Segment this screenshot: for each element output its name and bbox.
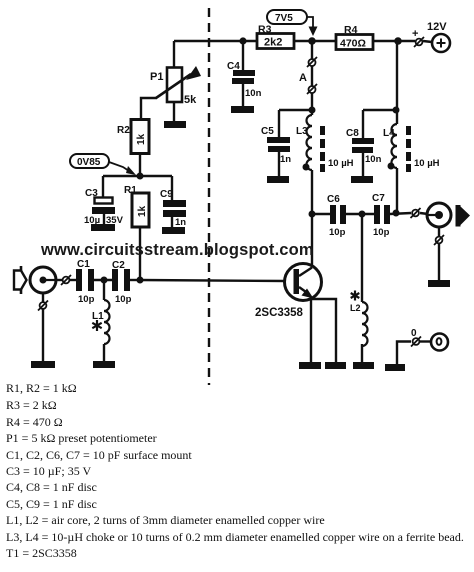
parts list text	[6, 381, 464, 560]
wire link to C1	[70, 279, 76, 281]
wire link to 12V	[423, 41, 432, 42]
wire BNC out shield drop	[438, 227, 440, 236]
wire R2 to node 0V85	[139, 153, 141, 177]
BNC input connector	[30, 267, 56, 293]
resistor R3	[257, 24, 294, 49]
wire L1 to ground	[103, 344, 105, 362]
svg-text:T1 = 2SC3358: T1 = 2SC3358	[6, 546, 77, 560]
wire C9 bottom to ground	[171, 216, 173, 228]
svg-text:10n: 10n	[365, 154, 382, 165]
wire C2 to base node	[130, 279, 140, 281]
wire L1 drop	[103, 280, 105, 300]
wire C6 node to C6	[312, 213, 330, 215]
wire base line	[139, 280, 286, 281]
wire C8 branch	[363, 109, 396, 111]
ground (emitter 2)	[325, 362, 346, 369]
wire BNC dot to link	[46, 279, 62, 281]
svg-text:12V: 12V	[427, 21, 447, 33]
capacitor C7	[372, 193, 390, 238]
node C1-C2 junction	[101, 277, 108, 284]
svg-text:C6: C6	[327, 194, 340, 205]
svg-text:10 µH: 10 µH	[414, 158, 440, 169]
svg-text:C1: C1	[77, 259, 90, 270]
svg-text:A: A	[299, 72, 307, 84]
potentiometer P1	[150, 66, 201, 106]
svg-text:L1, L2 = air core, 2 turns of: L1, L2 = air core, 2 turns of 3mm diamet…	[6, 513, 325, 527]
ground (C4)	[231, 106, 254, 113]
node C4 junction	[239, 37, 246, 44]
wire C7 to out node	[390, 213, 411, 214]
svg-text:5k: 5k	[184, 94, 197, 106]
terminal 0 jack	[431, 334, 448, 351]
capacitor C1	[76, 259, 95, 305]
wire C1 to C2	[94, 279, 112, 281]
wire L4 column top	[396, 41, 398, 124]
wire L3 bottom to collector node	[311, 170, 313, 214]
wire P1 wiper to R2	[141, 98, 157, 120]
node out junction	[393, 210, 400, 217]
resistor R1	[124, 185, 149, 227]
svg-text:10p: 10p	[78, 294, 95, 305]
ground (C9)	[162, 227, 185, 234]
svg-text:2SC3358: 2SC3358	[255, 307, 304, 319]
node L2 junction	[359, 211, 366, 218]
wire A link mid	[311, 66, 313, 86]
svg-text:C5: C5	[261, 126, 274, 137]
node base junction	[137, 277, 144, 284]
wire L4 bottom to C7 node	[396, 168, 398, 213]
capacitor C9	[160, 189, 186, 228]
svg-text:R1, R2 = 1 kΩ: R1, R2 = 1 kΩ	[6, 381, 77, 395]
inductor L2	[350, 291, 368, 347]
svg-text:C4, C8 = 1 nF disc: C4, C8 = 1 nF disc	[6, 480, 97, 494]
link (BNC in to C1)	[61, 275, 71, 285]
svg-text:1n: 1n	[280, 154, 291, 165]
wire A link to C5 node	[311, 93, 313, 115]
wire BNC in shield drop	[42, 294, 44, 302]
ground (L1)	[93, 361, 115, 368]
wire A link column	[311, 41, 313, 59]
capacitor C8	[346, 128, 382, 165]
svg-text:R2: R2	[117, 125, 130, 136]
wire C8 to ground	[362, 153, 364, 177]
inductor L1	[92, 300, 110, 344]
capacitor C6	[327, 194, 346, 238]
svg-text:0V85: 0V85	[77, 157, 101, 168]
node C5 branch	[309, 107, 316, 114]
svg-text:R1: R1	[124, 185, 137, 196]
svg-text:C8: C8	[346, 128, 359, 139]
node C8 branch	[393, 107, 400, 114]
wire R4 to link	[373, 40, 415, 42]
ground (C8)	[351, 176, 373, 183]
svg-text:10p: 10p	[115, 294, 132, 305]
wire out link to BNC	[420, 213, 428, 214]
svg-text:2k2: 2k2	[264, 37, 282, 49]
wire C9 top drop	[171, 176, 173, 200]
transistor T1 2SC3358	[255, 264, 322, 320]
wire 0-out link to jack	[420, 340, 431, 342]
svg-text:C5, C9 = 1 nF disc: C5, C9 = 1 nF disc	[6, 497, 97, 511]
svg-text:L3, L4 = 10-µH choke or 10 tur: L3, L4 = 10-µH choke or 10 turns of 0.2 …	[6, 530, 464, 544]
capacitor C2	[112, 260, 132, 305]
inductor L4	[383, 124, 440, 172]
svg-text:10p: 10p	[329, 227, 346, 238]
node R4-12V junction	[394, 37, 402, 45]
output arrow	[456, 205, 471, 227]
svg-text:1k: 1k	[136, 133, 147, 145]
node R3-R4 junction	[308, 37, 316, 45]
link (BNC in shield)	[38, 301, 48, 311]
ground (BNC out)	[428, 280, 450, 287]
wire C5 drop	[278, 110, 280, 137]
svg-text:www.circuitsstream.blogspot.co: www.circuitsstream.blogspot.com	[40, 241, 314, 259]
svg-text:C9: C9	[160, 189, 173, 200]
wire node 0V85 rail	[103, 175, 172, 177]
wire P1 top drop	[173, 41, 175, 67]
wire top rail left	[174, 40, 257, 42]
wire emitter right	[311, 299, 336, 362]
dashed separator line	[208, 8, 210, 385]
resistor R4	[336, 24, 373, 50]
ground (BNC in)	[31, 361, 55, 368]
svg-text:R3 = 2 kΩ: R3 = 2 kΩ	[6, 398, 57, 412]
svg-text:C1, C2, C6, C7 = 10 pF surface: C1, C2, C6, C7 = 10 pF surface mount	[6, 448, 192, 462]
wire L2 to ground	[361, 344, 363, 362]
ground (P1)	[164, 121, 186, 128]
label 7V5	[267, 10, 318, 36]
wire 0-out ground riser	[397, 342, 411, 365]
wire C5 branch	[279, 109, 312, 111]
svg-text:1n: 1n	[175, 217, 186, 228]
node collector junction	[309, 211, 316, 218]
wire emitter down	[310, 298, 312, 362]
svg-text:P1: P1	[150, 71, 163, 83]
svg-text:C7: C7	[372, 193, 385, 204]
ground (0 terminal)	[385, 364, 405, 371]
capacitor C4	[227, 61, 262, 99]
svg-text:C3 = 10 µF; 35 V: C3 = 10 µF; 35 V	[6, 464, 91, 478]
wire R1 bottom to base line	[139, 227, 141, 280]
wire C4 to ground	[242, 84, 244, 107]
wire BNC in shield to ground	[42, 309, 44, 361]
svg-text:10p: 10p	[373, 227, 390, 238]
wire BNC out shield to ground	[438, 244, 440, 280]
wire C6 to L2 node	[346, 213, 374, 215]
wire L2 drop	[361, 215, 363, 302]
svg-text:10 µH: 10 µH	[328, 158, 354, 169]
input arrow	[14, 266, 27, 294]
link (out)	[411, 208, 421, 218]
inductor L3	[296, 115, 354, 172]
svg-text:P1 = 5 kΩ preset potentiometer: P1 = 5 kΩ preset potentiometer	[6, 431, 157, 445]
resistor R2	[117, 120, 149, 154]
link + (12V)	[412, 28, 424, 47]
wire C8 drop	[362, 110, 364, 138]
ground (C5)	[267, 176, 289, 183]
link A	[299, 57, 317, 94]
svg-text:1k: 1k	[137, 205, 148, 217]
capacitor C3 (electrolytic)	[84, 188, 124, 226]
BNC output connector	[427, 203, 451, 227]
wire C4 drop	[242, 41, 244, 70]
capacitor C5	[261, 126, 291, 165]
svg-text:10n: 10n	[245, 88, 262, 99]
wire C5 to ground	[278, 152, 280, 177]
ground (emitter 1)	[299, 362, 321, 369]
wire P1 bottom to ground	[173, 101, 175, 121]
12V supply terminal	[427, 21, 450, 52]
link (0 terminal)	[411, 328, 421, 347]
wire collector	[311, 214, 313, 267]
ground (L2)	[353, 362, 374, 369]
svg-text:470Ω: 470Ω	[340, 38, 366, 50]
wire C3 top drop	[102, 176, 104, 197]
link (BNC out shield)	[434, 235, 444, 245]
svg-text:R4 = 470 Ω: R4 = 470 Ω	[6, 415, 63, 429]
svg-text:7V5: 7V5	[275, 13, 293, 24]
node 0V85 junction	[137, 173, 144, 180]
wire R3 to R4	[294, 40, 336, 42]
label 0V85	[70, 154, 136, 175]
ground (C3)	[91, 224, 115, 231]
svg-text:L2: L2	[350, 303, 361, 313]
wire C3 bottom to ground	[103, 213, 105, 225]
